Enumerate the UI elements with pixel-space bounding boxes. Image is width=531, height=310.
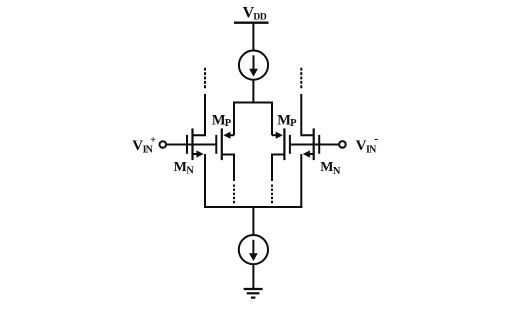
- svg-text:M: M: [212, 113, 226, 129]
- wire input VIN- to gates of MN and MP: [290, 144, 339, 146]
- current source I2 (tail source of NMOS pair): [239, 235, 268, 264]
- wire PMOS source rail (splits to MP sources): [234, 103, 272, 136]
- wire input VIN+ to gates of MN and MP: [167, 144, 217, 146]
- svg-text:V: V: [132, 138, 143, 154]
- svg-text:M: M: [174, 160, 187, 175]
- svg-text:P: P: [225, 118, 232, 129]
- svg-text:IN: IN: [366, 144, 377, 155]
- wire bus to current source I2: [252, 207, 254, 235]
- svg-text:V: V: [356, 138, 367, 154]
- terminal VIN+: [160, 141, 167, 148]
- svg-text:M: M: [320, 160, 333, 175]
- svg-text:N: N: [333, 166, 341, 177]
- wire dashed continuation below right MP drain: [271, 185, 273, 204]
- wire dashed continuation above right MN drain: [300, 68, 302, 89]
- svg-text:M: M: [277, 113, 291, 129]
- svg-text:-: -: [374, 132, 378, 146]
- svg-text:P: P: [290, 118, 297, 129]
- svg-text:N: N: [186, 165, 194, 176]
- svg-text:+: +: [150, 135, 156, 146]
- wire I1 to PMOS common-source node: [252, 80, 254, 104]
- label MP (right): [277, 113, 297, 129]
- transistor MP (left PMOS): [216, 128, 234, 181]
- wire I2 to ground: [252, 264, 254, 289]
- wire dashed continuation below left MP drain: [233, 185, 235, 204]
- wire dashed continuation above left MN drain: [204, 68, 206, 89]
- ground: [244, 289, 263, 298]
- label MP (left): [212, 113, 232, 129]
- wire VDD to current source I1: [252, 24, 254, 51]
- node VDD label: [243, 4, 267, 22]
- power rail VDD bar: [234, 22, 269, 24]
- current source I1 (tail source of PMOS pair): [239, 51, 268, 80]
- transistor MP (right PMOS): [272, 128, 290, 181]
- transistor MN (right NMOS): [301, 94, 319, 208]
- node VIN+ label: [132, 135, 156, 156]
- label MN (right): [320, 160, 341, 177]
- terminal VIN-: [339, 141, 346, 148]
- wire NMOS common-source bus: [204, 206, 302, 208]
- label MN (left): [174, 160, 195, 177]
- svg-text:IN: IN: [143, 144, 154, 155]
- svg-text:DD: DD: [253, 13, 266, 23]
- node VIN- label: [356, 132, 379, 156]
- transistor MN (left NMOS): [187, 94, 205, 208]
